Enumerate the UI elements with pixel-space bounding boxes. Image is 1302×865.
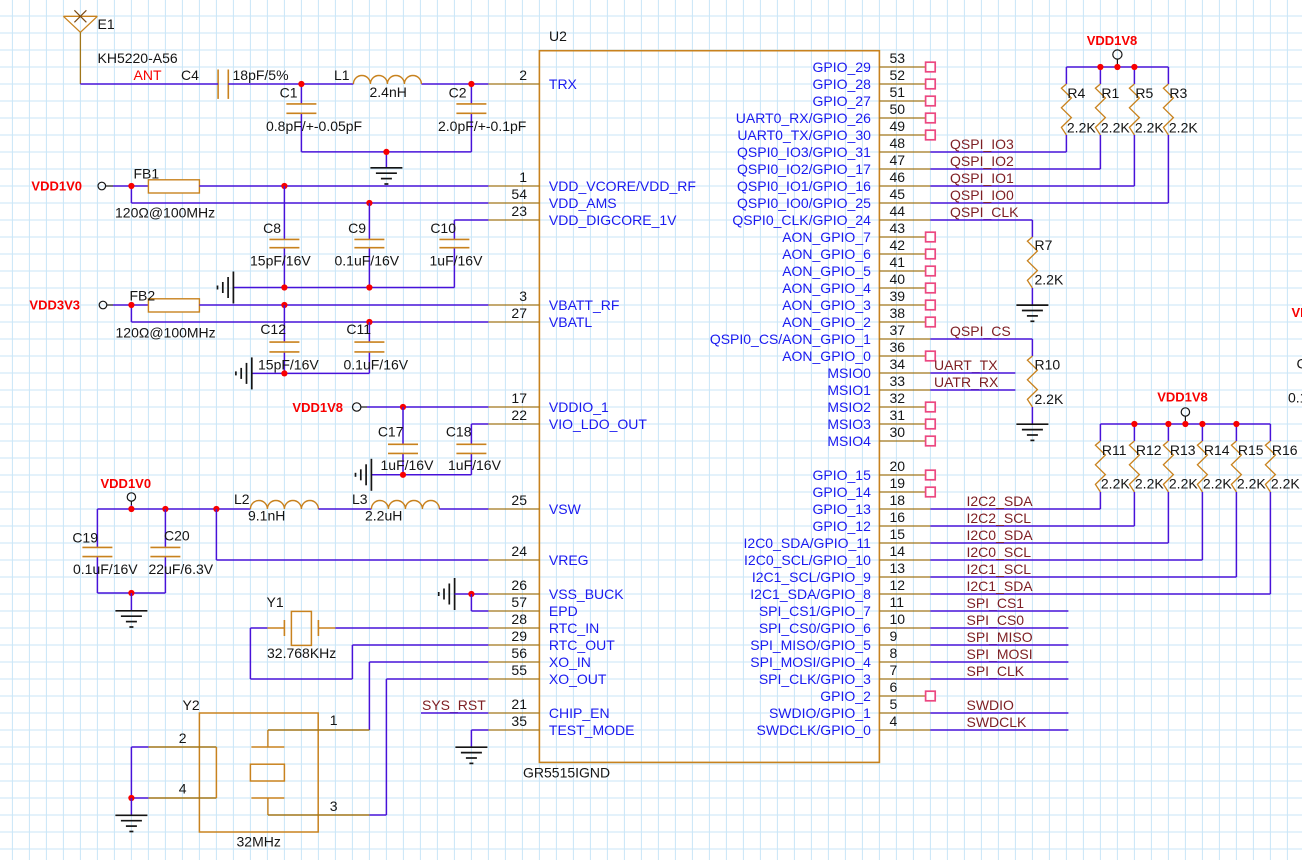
svg-text:I2C1_SCL/GPIO_9: I2C1_SCL/GPIO_9 xyxy=(752,569,871,585)
svg-text:R7: R7 xyxy=(1035,237,1053,253)
svg-text:SWDCLK/GPIO_0: SWDCLK/GPIO_0 xyxy=(757,722,872,738)
svg-text:CHIP_EN: CHIP_EN xyxy=(549,705,610,721)
svg-text:15pF/16V: 15pF/16V xyxy=(258,357,319,373)
svg-text:GPIO_15: GPIO_15 xyxy=(813,467,872,483)
svg-text:R3: R3 xyxy=(1169,85,1187,101)
svg-text:Y1: Y1 xyxy=(267,594,284,610)
svg-text:C1: C1 xyxy=(280,85,298,101)
svg-text:UART0_TX/GPIO_30: UART0_TX/GPIO_30 xyxy=(737,127,871,143)
svg-text:2.2K: 2.2K xyxy=(1203,476,1232,492)
svg-text:VBATL: VBATL xyxy=(549,314,593,330)
svg-text:SPI_CLK: SPI_CLK xyxy=(967,663,1025,679)
svg-text:SPI_CS0/GPIO_6: SPI_CS0/GPIO_6 xyxy=(759,620,871,636)
svg-text:SPI_CS1/GPIO_7: SPI_CS1/GPIO_7 xyxy=(759,603,871,619)
svg-text:VDD1V0: VDD1V0 xyxy=(101,476,152,491)
svg-text:AON_GPIO_7: AON_GPIO_7 xyxy=(782,229,871,245)
svg-text:30: 30 xyxy=(890,424,906,440)
svg-text:56: 56 xyxy=(511,645,527,661)
svg-text:R12: R12 xyxy=(1136,442,1162,458)
svg-text:0.1: 0.1 xyxy=(1288,390,1302,406)
svg-text:2.2K: 2.2K xyxy=(1035,272,1064,288)
svg-text:3: 3 xyxy=(330,798,338,814)
svg-text:C4: C4 xyxy=(181,67,199,83)
svg-text:120Ω@100MHz: 120Ω@100MHz xyxy=(115,205,215,221)
svg-text:24: 24 xyxy=(511,543,527,559)
svg-text:VDD1V8: VDD1V8 xyxy=(1087,33,1138,48)
svg-text:50: 50 xyxy=(890,101,906,117)
svg-text:2.2K: 2.2K xyxy=(1237,476,1266,492)
svg-text:44: 44 xyxy=(890,203,906,219)
svg-text:42: 42 xyxy=(890,237,906,253)
svg-text:2.2uH: 2.2uH xyxy=(365,508,402,524)
svg-text:26: 26 xyxy=(511,577,527,593)
svg-text:46: 46 xyxy=(890,169,906,185)
svg-text:47: 47 xyxy=(890,152,906,168)
svg-text:0.1uF/16V: 0.1uF/16V xyxy=(73,561,138,577)
svg-text:11: 11 xyxy=(890,594,905,610)
svg-text:15pF/16V: 15pF/16V xyxy=(250,253,311,269)
svg-text:18: 18 xyxy=(890,492,906,508)
svg-text:4: 4 xyxy=(179,781,187,797)
svg-text:L2: L2 xyxy=(234,491,250,507)
svg-text:35: 35 xyxy=(511,713,527,729)
svg-text:I2C0_SCL/GPIO_10: I2C0_SCL/GPIO_10 xyxy=(744,552,871,568)
svg-text:SPI_CS0: SPI_CS0 xyxy=(967,612,1025,628)
svg-text:2.2K: 2.2K xyxy=(1135,476,1164,492)
svg-text:33: 33 xyxy=(890,373,906,389)
svg-text:3: 3 xyxy=(519,288,527,304)
svg-text:VREG: VREG xyxy=(549,552,589,568)
svg-text:XO_OUT: XO_OUT xyxy=(549,671,607,687)
svg-text:L1: L1 xyxy=(334,67,350,83)
svg-text:12: 12 xyxy=(890,577,906,593)
svg-text:29: 29 xyxy=(511,628,527,644)
svg-text:E1: E1 xyxy=(98,16,115,32)
svg-text:GPIO_28: GPIO_28 xyxy=(813,76,872,92)
svg-text:U2: U2 xyxy=(549,28,567,44)
svg-text:R11: R11 xyxy=(1102,442,1127,458)
svg-text:VSS_BUCK: VSS_BUCK xyxy=(549,586,624,602)
svg-text:C20: C20 xyxy=(164,528,190,544)
svg-text:AON_GPIO_2: AON_GPIO_2 xyxy=(782,314,871,330)
svg-text:VBATT_RF: VBATT_RF xyxy=(549,297,620,313)
svg-text:34: 34 xyxy=(890,356,906,372)
svg-text:Y2: Y2 xyxy=(183,697,200,713)
svg-text:VDD1V0: VDD1V0 xyxy=(31,179,82,194)
svg-text:GPIO_29: GPIO_29 xyxy=(813,59,872,75)
svg-text:GPIO_12: GPIO_12 xyxy=(813,518,872,534)
svg-text:QSPI0_IO0/GPIO_25: QSPI0_IO0/GPIO_25 xyxy=(737,195,871,211)
svg-text:VDD1V8: VDD1V8 xyxy=(1157,390,1208,405)
svg-text:49: 49 xyxy=(890,118,906,134)
svg-text:55: 55 xyxy=(511,662,527,678)
svg-text:22uF/6.3V: 22uF/6.3V xyxy=(149,561,214,577)
svg-text:38: 38 xyxy=(890,305,906,321)
svg-text:C19: C19 xyxy=(72,530,98,546)
svg-text:1: 1 xyxy=(330,712,338,728)
svg-text:120Ω@100MHz: 120Ω@100MHz xyxy=(116,325,216,341)
svg-text:R5: R5 xyxy=(1135,85,1153,101)
svg-text:ANT: ANT xyxy=(134,67,162,83)
svg-text:SYS_RST: SYS_RST xyxy=(422,697,486,713)
svg-text:2.2K: 2.2K xyxy=(1067,120,1096,136)
svg-text:0.1uF/16V: 0.1uF/16V xyxy=(344,357,409,373)
svg-text:I2C0_SDA/GPIO_11: I2C0_SDA/GPIO_11 xyxy=(744,535,872,551)
svg-text:41: 41 xyxy=(890,254,906,270)
svg-text:MSIO3: MSIO3 xyxy=(827,416,871,432)
svg-text:I2C0_SDA: I2C0_SDA xyxy=(967,527,1034,543)
svg-text:8: 8 xyxy=(890,645,898,661)
svg-text:QSPI_CLK: QSPI_CLK xyxy=(950,204,1019,220)
svg-text:0.8pF/+-0.05pF: 0.8pF/+-0.05pF xyxy=(266,118,362,134)
svg-text:I2C0_SCL: I2C0_SCL xyxy=(967,544,1032,560)
svg-text:MSIO1: MSIO1 xyxy=(827,382,871,398)
svg-text:GPIO_13: GPIO_13 xyxy=(813,501,872,517)
svg-text:QSPI0_IO2/GPIO_17: QSPI0_IO2/GPIO_17 xyxy=(737,161,871,177)
svg-text:I2C1_SDA/GPIO_8: I2C1_SDA/GPIO_8 xyxy=(750,586,871,602)
svg-text:4: 4 xyxy=(890,713,898,729)
svg-text:14: 14 xyxy=(890,543,906,559)
svg-text:VDD3V3: VDD3V3 xyxy=(29,298,80,313)
svg-text:TEST_MODE: TEST_MODE xyxy=(549,722,635,738)
svg-text:SWDIO/GPIO_1: SWDIO/GPIO_1 xyxy=(769,705,871,721)
svg-text:48: 48 xyxy=(890,135,906,151)
svg-text:R10: R10 xyxy=(1035,357,1061,373)
svg-text:SPI_CS1: SPI_CS1 xyxy=(967,595,1025,611)
svg-text:I2C1_SCL: I2C1_SCL xyxy=(967,561,1032,577)
svg-text:2.2K: 2.2K xyxy=(1101,120,1130,136)
svg-text:54: 54 xyxy=(511,186,527,202)
svg-text:1uF/16V: 1uF/16V xyxy=(448,457,502,473)
svg-text:9.1nH: 9.1nH xyxy=(248,508,285,524)
svg-text:VSW: VSW xyxy=(549,501,582,517)
svg-text:C10: C10 xyxy=(430,220,456,236)
svg-text:C18: C18 xyxy=(446,424,472,440)
svg-text:FB1: FB1 xyxy=(134,166,160,182)
svg-text:FB2: FB2 xyxy=(130,288,156,304)
svg-text:VDD_DIGCORE_1V: VDD_DIGCORE_1V xyxy=(549,212,677,228)
svg-text:1uF/16V: 1uF/16V xyxy=(381,457,435,473)
svg-text:SWDIO: SWDIO xyxy=(967,697,1015,713)
svg-text:37: 37 xyxy=(890,322,906,338)
svg-text:2.2K: 2.2K xyxy=(1169,120,1198,136)
svg-text:R15: R15 xyxy=(1238,442,1264,458)
svg-text:25: 25 xyxy=(511,492,527,508)
svg-text:C2: C2 xyxy=(449,85,467,101)
svg-text:UART_TX: UART_TX xyxy=(934,357,998,373)
svg-text:GPIO_27: GPIO_27 xyxy=(813,93,872,109)
svg-text:EPD: EPD xyxy=(549,603,578,619)
svg-text:9: 9 xyxy=(890,628,898,644)
svg-text:22: 22 xyxy=(511,407,527,423)
svg-text:MSIO0: MSIO0 xyxy=(827,365,871,381)
svg-text:20: 20 xyxy=(890,458,906,474)
svg-text:2.2K: 2.2K xyxy=(1035,391,1064,407)
svg-text:C17: C17 xyxy=(378,424,404,440)
svg-text:19: 19 xyxy=(890,475,906,491)
svg-text:I2C1_SDA: I2C1_SDA xyxy=(967,578,1034,594)
svg-text:17: 17 xyxy=(511,390,527,406)
svg-text:SPI_CLK/GPIO_3: SPI_CLK/GPIO_3 xyxy=(759,671,871,687)
svg-text:GPIO_2: GPIO_2 xyxy=(820,688,871,704)
svg-text:QSPI0_CLK/GPIO_24: QSPI0_CLK/GPIO_24 xyxy=(732,212,871,228)
svg-text:SPI_MISO/GPIO_5: SPI_MISO/GPIO_5 xyxy=(750,637,871,653)
svg-text:R14: R14 xyxy=(1204,442,1230,458)
svg-text:GPIO_14: GPIO_14 xyxy=(813,484,872,500)
svg-text:AON_GPIO_5: AON_GPIO_5 xyxy=(782,263,871,279)
svg-text:VDD_AMS: VDD_AMS xyxy=(549,195,617,211)
svg-text:GR5515IGND: GR5515IGND xyxy=(523,765,610,781)
svg-text:SPI_MOSI: SPI_MOSI xyxy=(967,646,1033,662)
svg-text:QSPI_IO3: QSPI_IO3 xyxy=(950,136,1014,152)
svg-text:16: 16 xyxy=(890,509,906,525)
svg-text:27: 27 xyxy=(511,305,527,321)
svg-text:R13: R13 xyxy=(1170,442,1196,458)
svg-text:53: 53 xyxy=(890,50,906,66)
svg-text:AON_GPIO_6: AON_GPIO_6 xyxy=(782,246,871,262)
svg-text:7: 7 xyxy=(890,662,898,678)
svg-text:51: 51 xyxy=(890,84,906,100)
svg-text:C11: C11 xyxy=(346,321,371,337)
svg-text:UART0_RX/GPIO_26: UART0_RX/GPIO_26 xyxy=(736,110,871,126)
svg-text:VDD_VCORE/VDD_RF: VDD_VCORE/VDD_RF xyxy=(549,178,696,194)
svg-text:L3: L3 xyxy=(352,491,368,507)
svg-text:15: 15 xyxy=(890,526,906,542)
svg-text:2.4nH: 2.4nH xyxy=(370,84,407,100)
svg-text:VDD1V8: VDD1V8 xyxy=(292,400,343,415)
svg-text:XO_IN: XO_IN xyxy=(549,654,591,670)
svg-text:QSPI_IO0: QSPI_IO0 xyxy=(950,187,1014,203)
svg-text:RTC_OUT: RTC_OUT xyxy=(549,637,615,653)
svg-text:28: 28 xyxy=(511,611,527,627)
svg-text:39: 39 xyxy=(890,288,906,304)
svg-text:1uF/16V: 1uF/16V xyxy=(430,253,484,269)
svg-text:QSPI_IO2: QSPI_IO2 xyxy=(950,153,1014,169)
svg-text:AON_GPIO_3: AON_GPIO_3 xyxy=(782,297,871,313)
svg-text:VDDIO_1: VDDIO_1 xyxy=(549,399,609,415)
svg-text:QSPI0_IO1/GPIO_16: QSPI0_IO1/GPIO_16 xyxy=(737,178,871,194)
svg-text:KH5220-A56: KH5220-A56 xyxy=(98,50,178,66)
svg-text:RTC_IN: RTC_IN xyxy=(549,620,599,636)
svg-text:1: 1 xyxy=(519,169,527,185)
svg-text:6: 6 xyxy=(890,679,898,695)
svg-text:MSIO4: MSIO4 xyxy=(827,433,871,449)
svg-text:31: 31 xyxy=(890,407,906,423)
svg-text:43: 43 xyxy=(890,220,906,236)
svg-text:2.2K: 2.2K xyxy=(1101,476,1130,492)
svg-text:R16: R16 xyxy=(1272,442,1298,458)
svg-text:C8: C8 xyxy=(263,220,281,236)
svg-text:VI: VI xyxy=(1292,305,1302,320)
svg-text:2.2K: 2.2K xyxy=(1135,120,1164,136)
svg-text:32.768KHz: 32.768KHz xyxy=(267,645,336,661)
svg-text:QSPI0_IO3/GPIO_31: QSPI0_IO3/GPIO_31 xyxy=(737,144,871,160)
svg-text:40: 40 xyxy=(890,271,906,287)
svg-text:QSPI_IO1: QSPI_IO1 xyxy=(950,170,1014,186)
svg-text:QSPI_CS: QSPI_CS xyxy=(950,323,1011,339)
svg-text:5: 5 xyxy=(890,696,898,712)
svg-text:I2C2_SCL: I2C2_SCL xyxy=(967,510,1032,526)
svg-text:SWDCLK: SWDCLK xyxy=(967,714,1028,730)
svg-text:R4: R4 xyxy=(1067,85,1085,101)
svg-text:VIO_LDO_OUT: VIO_LDO_OUT xyxy=(549,416,647,432)
svg-text:SPI_MISO: SPI_MISO xyxy=(967,629,1033,645)
svg-text:AON_GPIO_0: AON_GPIO_0 xyxy=(782,348,871,364)
svg-text:QSPI0_CS/AON_GPIO_1: QSPI0_CS/AON_GPIO_1 xyxy=(710,331,871,347)
svg-text:TRX: TRX xyxy=(549,76,578,92)
svg-text:36: 36 xyxy=(890,339,906,355)
svg-text:32MHz: 32MHz xyxy=(237,834,281,850)
svg-text:C12: C12 xyxy=(260,321,286,337)
svg-text:R1: R1 xyxy=(1101,85,1119,101)
svg-text:2: 2 xyxy=(179,730,187,746)
svg-text:13: 13 xyxy=(890,560,906,576)
svg-text:C: C xyxy=(1297,356,1302,372)
svg-text:18pF/5%: 18pF/5% xyxy=(233,67,289,83)
svg-text:MSIO2: MSIO2 xyxy=(827,399,871,415)
svg-text:C9: C9 xyxy=(348,220,366,236)
svg-text:SPI_MOSI/GPIO_4: SPI_MOSI/GPIO_4 xyxy=(750,654,871,670)
svg-text:10: 10 xyxy=(890,611,906,627)
svg-text:2: 2 xyxy=(519,67,527,83)
svg-text:2.2K: 2.2K xyxy=(1271,476,1300,492)
svg-text:23: 23 xyxy=(511,203,527,219)
svg-text:32: 32 xyxy=(890,390,906,406)
svg-text:45: 45 xyxy=(890,186,906,202)
svg-text:AON_GPIO_4: AON_GPIO_4 xyxy=(782,280,871,296)
svg-text:UATR_RX: UATR_RX xyxy=(934,374,999,390)
svg-text:2.0pF/+-0.1pF: 2.0pF/+-0.1pF xyxy=(438,118,526,134)
svg-text:57: 57 xyxy=(511,594,527,610)
svg-text:2.2K: 2.2K xyxy=(1169,476,1198,492)
svg-text:I2C2_SDA: I2C2_SDA xyxy=(967,493,1034,509)
svg-text:21: 21 xyxy=(511,696,527,712)
svg-text:0.1uF/16V: 0.1uF/16V xyxy=(335,253,400,269)
svg-text:52: 52 xyxy=(890,67,906,83)
